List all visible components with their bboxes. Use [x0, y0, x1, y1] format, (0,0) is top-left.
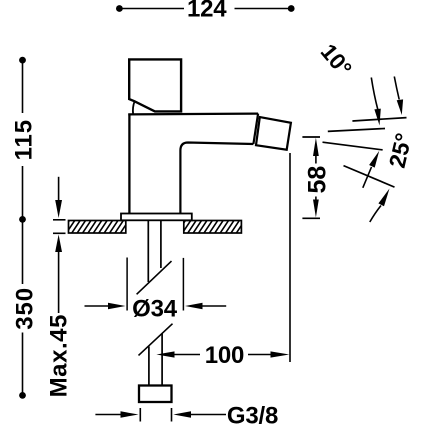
spout underside and body inner edge	[180, 143, 253, 214]
shank upper right line	[160, 221, 162, 269]
dim G3/8 left shaft	[95, 414, 121, 416]
Max.45 up arrowhead	[55, 235, 62, 253]
inlet nut G3/8	[139, 386, 172, 403]
svg-text:Max.45: Max.45	[46, 314, 73, 397]
left countertop slab hatching	[60, 220, 135, 235]
dim G3/8 left arrowhead	[121, 411, 139, 417]
dim O34 right arrowhead	[185, 303, 203, 309]
dim 25deg arrow 4 head	[378, 189, 389, 207]
faucet body / spout top edge	[128, 112, 258, 115]
dim 25deg lower ray	[344, 166, 395, 188]
dim 58 lower shaft	[315, 197, 317, 201]
dim O34 left arrow shaft	[85, 305, 110, 307]
handle lever front arc	[133, 102, 135, 115]
svg-text:115: 115	[10, 119, 37, 160]
dim 350 bottom dot	[19, 392, 26, 399]
dim 124 right dot	[288, 5, 295, 12]
dim 10deg arrow 2 head	[397, 99, 403, 115]
spout end face	[253, 114, 258, 144]
shank lower left line	[148, 347, 150, 387]
dim 10deg arrow 1 leader	[371, 78, 378, 110]
handle	[129, 59, 181, 111]
shank lower right line	[161, 334, 163, 387]
svg-text:350: 350	[11, 287, 38, 330]
right countertop slab hatching	[176, 220, 251, 235]
svg-text:100: 100	[205, 342, 244, 369]
dim 350 line upper segment	[22, 222, 24, 285]
dim 115 line upper segment	[22, 62, 24, 113]
right countertop slab outline	[184, 221, 242, 234]
dim 58 upper shaft	[315, 155, 317, 164]
outlet extension line	[289, 153, 291, 362]
Max.45 arrow shaft	[58, 251, 60, 313]
aerator tip	[256, 117, 291, 150]
svg-text:124: 124	[187, 0, 227, 23]
dim O34 right arrow shaft	[202, 305, 227, 307]
dim G3/8 left tick	[139, 408, 141, 422]
dim 25deg arrow 3 leader	[363, 167, 372, 188]
dim 25deg arrow 4 leader	[370, 206, 381, 223]
dim 124 left dot	[116, 5, 123, 12]
dim 124 line left segment	[123, 8, 185, 10]
left countertop slab outline	[69, 221, 126, 234]
dim 124 line right segment	[235, 8, 289, 10]
dim 115 line lower segment	[22, 166, 24, 218]
dim 100 left arrowhead	[156, 351, 174, 357]
dim 100 left shaft	[174, 354, 201, 356]
dim 58 down arrowhead	[313, 200, 319, 218]
dim G3/8 right shaft	[190, 414, 226, 416]
dim G3/8 right tick	[171, 408, 173, 422]
dim 100 right shaft	[248, 354, 272, 356]
dim 115 top dot	[19, 57, 26, 64]
dim O34 left extension line	[126, 258, 128, 311]
dim 25deg upper ray	[323, 142, 383, 150]
dim 58 up arrowhead	[313, 138, 319, 156]
dim 350 line lower segment	[22, 333, 24, 394]
svg-text:58: 58	[304, 166, 332, 194]
dim 115/350 shared dot	[19, 216, 26, 223]
shank upper left line	[147, 221, 149, 283]
dim 25deg arrow 3 head	[369, 151, 379, 168]
slab thickness lower tick	[53, 232, 66, 234]
dim O34 left arrowhead	[108, 303, 126, 309]
shank break slash 2	[139, 324, 173, 356]
dim 58 bottom tick	[302, 217, 320, 219]
dim 10deg upper ray	[352, 118, 406, 121]
faucet body left edge	[128, 114, 130, 214]
dim 10deg reference ray	[328, 129, 385, 132]
dim G3/8 right arrowhead	[173, 411, 191, 417]
slab thickness down arrow shaft	[58, 177, 60, 201]
dim 10deg arrow 1 head	[374, 109, 380, 126]
base plate	[121, 214, 192, 221]
slab thickness upper tick	[53, 219, 66, 221]
dim 58 top tick	[302, 136, 320, 138]
shank break slash 1	[137, 261, 172, 294]
dim 10deg arrow 2 leader	[394, 77, 399, 100]
dim O34 right extension line	[182, 258, 184, 311]
svg-text:Ø34: Ø34	[132, 296, 178, 323]
dim 100 right arrowhead	[271, 351, 290, 357]
slab thickness down arrowhead	[55, 200, 62, 218]
svg-text:G3/8: G3/8	[227, 403, 278, 424]
